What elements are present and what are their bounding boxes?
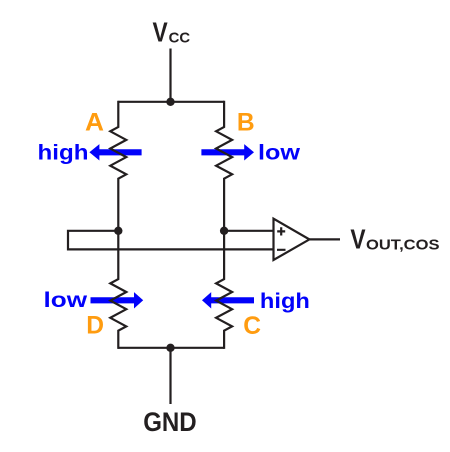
label Vcc [153,16,191,47]
wire bottom rail [118,347,224,349]
svg-text:V: V [350,223,366,254]
svg-text:high: high [38,142,89,165]
node left bridge midpoint [114,227,122,235]
wire left node to inverting input (U-loop) [68,231,274,250]
arrow resistor D (points right) [91,292,144,308]
svg-text:A: A [85,110,104,137]
svg-text:low: low [258,142,301,165]
svg-text:CC: CC [169,31,191,47]
resistor A [110,101,126,231]
arrow resistor C (points left) [202,292,254,308]
node bottom (GND junction) [166,344,174,352]
resistor B [216,101,232,231]
wire GND lead [169,348,171,404]
svg-text:B: B [237,110,255,137]
wire op-amp output [309,238,340,240]
op-amp U1 [274,219,310,260]
label Vout,cos [350,223,439,254]
svg-text:V: V [153,16,169,47]
arrow resistor A decrease (points left) [89,144,141,160]
svg-text:D: D [86,313,104,340]
svg-text:OUT,COS: OUT,COS [366,236,440,253]
node right bridge midpoint [220,227,228,235]
wire right node to non-inverting input [224,230,273,232]
arrow resistor B increase (points right) [201,144,254,160]
svg-text:low: low [44,289,88,312]
wire Vcc lead [169,49,171,102]
resistor C [216,231,232,349]
svg-text:C: C [243,313,261,340]
node top (Vcc junction) [166,98,174,106]
svg-text:high: high [260,290,310,313]
svg-text:GND: GND [143,407,197,437]
wire top rail [118,101,224,103]
resistor D [110,231,126,349]
